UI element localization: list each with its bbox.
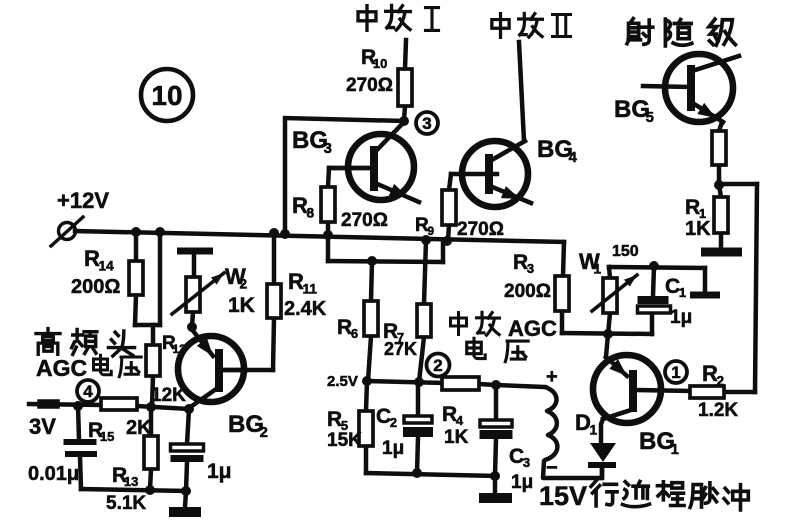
svg-text:3V: 3V: [29, 414, 56, 439]
svg-text:270Ω: 270Ω: [341, 210, 388, 231]
svg-text:270Ω: 270Ω: [346, 75, 393, 96]
svg-text:12: 12: [173, 343, 187, 356]
svg-text:1: 1: [590, 422, 598, 437]
svg-text:10: 10: [373, 56, 387, 71]
svg-text:270Ω: 270Ω: [457, 219, 504, 240]
svg-text:13: 13: [124, 474, 138, 489]
svg-text:8: 8: [307, 205, 315, 220]
svg-text:15: 15: [100, 429, 114, 444]
svg-text:1K: 1K: [444, 427, 469, 448]
svg-text:−: −: [546, 457, 558, 479]
svg-text:D: D: [575, 410, 591, 435]
svg-text:2.5V: 2.5V: [327, 373, 358, 390]
svg-text:+12V: +12V: [57, 188, 109, 213]
svg-text:9: 9: [428, 225, 435, 238]
svg-text:BG: BG: [614, 96, 650, 123]
svg-text:1: 1: [679, 285, 686, 300]
svg-text:+: +: [546, 366, 558, 388]
svg-text:2: 2: [717, 373, 725, 388]
svg-text:11: 11: [303, 281, 318, 296]
svg-text:2: 2: [240, 276, 248, 291]
svg-text:3: 3: [523, 455, 530, 470]
svg-text:1: 1: [671, 363, 680, 382]
svg-text:1.2K: 1.2K: [698, 400, 738, 421]
svg-text:2: 2: [390, 415, 397, 430]
svg-text:3: 3: [527, 261, 534, 276]
svg-text:1μ: 1μ: [382, 438, 404, 459]
svg-text:BG: BG: [537, 136, 573, 163]
svg-text:200Ω: 200Ω: [504, 281, 551, 302]
svg-text:200Ω: 200Ω: [71, 276, 120, 298]
svg-text:BG: BG: [292, 127, 328, 154]
svg-text:3: 3: [422, 114, 431, 133]
svg-text:BG: BG: [228, 411, 264, 438]
svg-text:5: 5: [646, 110, 654, 126]
svg-text:1K: 1K: [228, 294, 255, 317]
svg-text:4: 4: [456, 413, 464, 428]
svg-text:2K: 2K: [126, 417, 152, 439]
svg-text:AGC: AGC: [36, 355, 87, 381]
svg-text:1: 1: [671, 442, 679, 458]
svg-text:15V: 15V: [539, 481, 587, 511]
svg-text:27K: 27K: [384, 339, 417, 359]
svg-text:1: 1: [594, 261, 602, 276]
svg-text:1K: 1K: [685, 218, 711, 240]
svg-text:2: 2: [433, 356, 442, 375]
svg-text:12K: 12K: [151, 385, 186, 406]
svg-text:0.01μ: 0.01μ: [28, 463, 79, 485]
svg-text:2.4K: 2.4K: [284, 298, 327, 320]
svg-text:4: 4: [569, 150, 578, 166]
svg-text:150: 150: [612, 243, 639, 260]
svg-text:1μ: 1μ: [670, 307, 692, 328]
svg-text:AGC: AGC: [508, 316, 557, 341]
svg-text:BG: BG: [639, 428, 675, 455]
svg-text:5.1K: 5.1K: [106, 493, 146, 514]
svg-text:15K: 15K: [327, 430, 362, 451]
svg-text:1μ: 1μ: [207, 460, 232, 483]
svg-text:6: 6: [351, 326, 358, 341]
svg-text:10: 10: [151, 80, 182, 111]
svg-text:14: 14: [99, 258, 115, 273]
svg-text:1μ: 1μ: [511, 472, 533, 493]
svg-text:4: 4: [83, 382, 93, 401]
svg-text:2: 2: [260, 425, 268, 441]
svg-text:3: 3: [324, 141, 332, 157]
